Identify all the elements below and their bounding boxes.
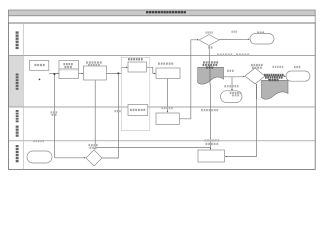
text flag2 label line3	[269, 79, 279, 81]
text oval1 label	[257, 32, 264, 34]
title bar	[8, 10, 315, 16]
decision diamond D2	[245, 68, 265, 84]
text diamond D3 label line2	[90, 147, 97, 149]
text stadium2 text line2	[232, 94, 239, 96]
decision diamond D1 审核同意	[199, 35, 219, 46]
header row	[8, 16, 315, 23]
text annotation near drop54 line1	[51, 111, 58, 113]
text flag2 label line2	[265, 76, 283, 78]
lane3 process box (empty)	[156, 113, 179, 125]
text stadium2 text line1	[230, 92, 241, 94]
wire through flag2	[256, 84, 258, 99]
wire backbone A to B	[49, 73, 59, 75]
text annotation 对口经办	[33, 140, 44, 142]
text lane2 label 区域营销中心	[16, 74, 19, 90]
text box A 合同信息	[35, 64, 45, 66]
wire branch y147 to box F	[95, 146, 210, 148]
wire riser x118 from diamond D3 up to backbone	[102, 73, 118, 158]
text title 集采·区域协力管理流程	[146, 11, 186, 13]
stadium2 terminator in lane2	[221, 91, 243, 103]
wire diamond D2 down through flag2 to box F right	[225, 84, 257, 157]
text box C label line1	[86, 61, 102, 63]
text flag2 label line1	[264, 74, 284, 76]
text edge label 同意	[208, 46, 212, 48]
text box F label line2	[206, 143, 219, 145]
text lane3 label 管理中心 part2	[16, 126, 19, 137]
text box B line1	[63, 63, 72, 65]
text annotation near riser118	[115, 110, 121, 112]
arrow into flag2 top	[268, 79, 270, 81]
text flag1 label line2	[203, 64, 218, 66]
swimlane frame	[8, 23, 315, 169]
flag1 gray document shape	[198, 67, 224, 84]
text 条款 box label	[130, 109, 145, 111]
oval End1 terminator	[250, 34, 274, 45]
wire box E bottom down to lane3 box	[167, 79, 169, 113]
oval End2 terminator	[286, 71, 310, 81]
lane3 box 条款手续	[128, 105, 148, 116]
text edge label 不同意	[232, 31, 237, 33]
text box B line2	[64, 66, 71, 68]
wire diamond D1 bottom to flag1 top	[209, 46, 211, 68]
process box A 合同信息	[30, 61, 49, 71]
text box C label line2	[88, 64, 100, 66]
text flag1 label line3	[206, 67, 213, 69]
wire flag1 right to diamond D2	[224, 76, 245, 78]
container group box	[121, 57, 150, 130]
text box E label	[158, 63, 173, 65]
process box F lane4	[198, 150, 225, 162]
text diamond D2 label line2	[252, 67, 262, 69]
text box F label line1	[205, 139, 220, 141]
text flag1 label line1	[203, 61, 218, 63]
text annotation near drop54 line2	[52, 114, 57, 116]
wire drop to stadium2	[231, 77, 233, 91]
wire diamond D1 to oval End1	[219, 39, 250, 41]
process box D	[128, 62, 147, 72]
text oval2 label	[294, 66, 300, 68]
decision diamond D3 lane4	[86, 150, 102, 166]
text lane border annotation part2	[236, 54, 249, 56]
process box E 实施考核验收	[156, 68, 180, 79]
process box C 手续符合文件记录	[84, 66, 107, 80]
wire from flag1 bottom down to box F top	[210, 85, 212, 150]
wire through flag1	[209, 67, 211, 85]
text lane3 label 集采工程 part1	[16, 110, 19, 122]
text annotation 手续验收	[162, 107, 173, 109]
lane2 label cell gray fill	[9, 56, 23, 107]
text edge label 允许份	[227, 70, 234, 72]
text lane border annotation part1	[217, 54, 232, 56]
stadium3 start terminator lane4	[27, 151, 52, 163]
wire C to D with junction dot	[107, 67, 128, 75]
text lane1 label 能源公司信息部	[16, 31, 19, 49]
text edge label 交接工	[224, 85, 238, 87]
text diamond D2 label line1	[251, 64, 263, 66]
process box B 确定节点预算	[59, 61, 79, 79]
wire drop from backbone at x54 down to lane 4	[53, 73, 55, 158]
text edge label 不同意打回	[273, 66, 284, 68]
wire from lane3 box up to diamond D1 left	[179, 39, 198, 119]
text container label	[128, 58, 143, 60]
wire B to C	[79, 73, 84, 75]
text diamond D1 label 审核同意	[206, 31, 213, 33]
flag2 gray document shape	[262, 80, 289, 99]
wire D to E	[147, 67, 156, 74]
text diamond D3 label line1	[89, 144, 98, 146]
wire diamond D2 to oval End2	[265, 76, 286, 78]
text annotation below border right	[201, 109, 218, 111]
wire into decision diamond D3	[54, 157, 86, 159]
junction dot lane2 left	[39, 79, 41, 81]
text lane4 label 财务部经办人	[16, 145, 19, 162]
wire from box C bottom down to diamond D3 top	[94, 80, 96, 150]
